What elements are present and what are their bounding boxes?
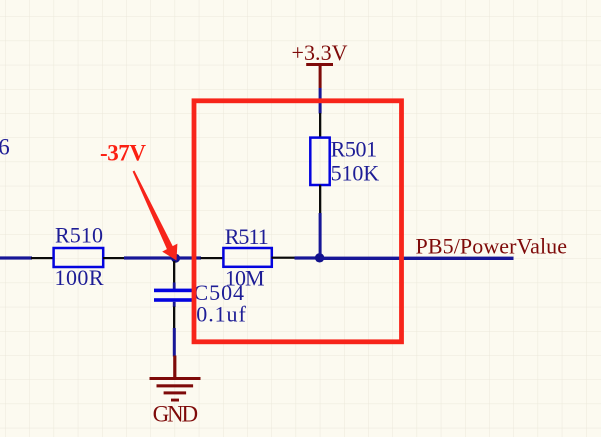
svg-text:R511: R511 [225,224,269,249]
pin: R510 pin 1 [31,257,54,259]
power symbol +3.3V stem [319,65,322,88]
resistor R501 body [310,138,329,185]
ground GND bar 2 [157,384,194,387]
wire: R511 to node B [295,256,321,259]
pin: C504 pin 2 [173,307,175,329]
resistor R510 body [54,248,104,267]
wire: R501 to node B [319,213,322,255]
pin: R511 pin 1 [201,257,224,259]
svg-text:0.1uf: 0.1uf [196,301,246,326]
svg-text:-37V: -37V [100,141,146,166]
svg-text:6: 6 [0,134,10,159]
wire stub above C504 top plate [173,283,176,290]
pin: R511 pin 2 [272,257,296,259]
capacitor C504 bottom plate [154,298,194,302]
wire: C504 to GND [173,328,176,357]
wire: node A to R511 [176,256,201,259]
wire: R510 to node A [124,256,176,259]
pin: C504 pin 1 (node A down to top plate) [173,261,175,283]
svg-text:R501: R501 [331,137,378,162]
svg-text:R510: R510 [55,223,103,248]
pin: R501 pin 1 [319,113,321,138]
ground GND stem [173,356,176,379]
svg-text:+3.3V: +3.3V [292,40,348,65]
power symbol +3.3V bar [306,63,333,66]
ground GND bar 4 [171,399,179,402]
svg-text:100R: 100R [55,265,104,290]
ground GND bar 3 [164,391,187,394]
pin: R510 pin 2 [103,257,125,259]
annotation arrow pointing to node A [133,171,178,261]
junction node B [315,253,324,262]
wire: left horizontal wire from sheet edge to R510 [0,256,32,259]
svg-text:510K: 510K [331,160,380,185]
junction node A [171,254,180,263]
svg-text:PB5/PowerValue: PB5/PowerValue [416,234,568,259]
wire: node B to net label end [320,257,514,260]
resistor R511 body [223,248,271,267]
svg-text:GND: GND [153,402,199,427]
pin: R501 pin 2 [319,185,321,214]
capacitor C504 top plate [154,289,194,293]
wire stub below C504 bottom plate [173,302,176,307]
annotation rectangle (red highlight box) [194,101,402,342]
wire: power to R501 [319,88,322,114]
ground GND bar 1 [150,377,201,380]
